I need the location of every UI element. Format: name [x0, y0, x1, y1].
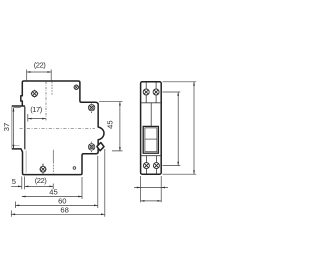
svg-text:(22): (22) — [34, 61, 46, 70]
right view outer dim — [163, 82, 197, 174]
hidden line x52 — [51, 82, 53, 95]
right view bottom dim 2 — [141, 200, 162, 202]
dim 60 bottom — [15, 156, 97, 208]
screw C — [88, 102, 94, 113]
right view screw B1 — [143, 163, 149, 169]
small hole F — [73, 167, 76, 170]
svg-text:45: 45 — [106, 120, 115, 128]
svg-text:(22): (22) — [35, 176, 47, 185]
right view bottom dim — [134, 176, 168, 202]
right view body outline — [141, 82, 162, 174]
dim (17) — [28, 105, 46, 122]
inner wall line bottom left — [25, 151, 27, 173]
svg-text:5: 5 — [12, 177, 16, 186]
right view top terminal line — [141, 102, 160, 104]
foot rear edge (thin) — [11, 106, 13, 148]
hidden line bottom x57.8 — [52, 150, 54, 162]
right view bottom screw centerlines — [146, 156, 156, 174]
right view inner dim — [163, 92, 181, 166]
right view screw B2 — [153, 163, 159, 169]
screw D — [88, 142, 94, 153]
recess inner edge — [24, 107, 26, 150]
svg-text:37: 37 — [2, 123, 11, 131]
right view screw T2 — [153, 89, 159, 95]
svg-text:68: 68 — [60, 205, 68, 214]
toggle handle — [97, 143, 104, 151]
dim (22) top — [27, 61, 52, 81]
right view toggle mid line — [145, 138, 157, 140]
svg-text:(17): (17) — [30, 105, 42, 114]
right view bottom terminal line — [141, 155, 160, 157]
screw A — [31, 90, 39, 98]
centerline y128.7 — [20, 128, 96, 130]
right view center line — [150, 103, 152, 126]
dim 45 bottom — [22, 177, 82, 199]
right view toggle inner — [145, 128, 157, 152]
svg-text:45: 45 — [49, 188, 57, 197]
right view screw T1 — [143, 89, 149, 95]
dim 68 bottom — [11, 149, 105, 217]
right view top screw centerlines — [146, 83, 156, 103]
right view toggle outer — [143, 126, 158, 153]
dim 45 right side — [99, 102, 123, 151]
dim 5 bottom — [11, 177, 24, 190]
dim 37 left — [2, 108, 21, 149]
foot clip slot line — [12, 144, 19, 146]
svg-text:60: 60 — [58, 197, 66, 206]
screw B — [74, 85, 79, 90]
left view body outline — [12, 81, 104, 175]
screw E — [40, 164, 47, 174]
hidden line x46 — [45, 82, 47, 121]
dim (22) bottom — [25, 176, 54, 189]
